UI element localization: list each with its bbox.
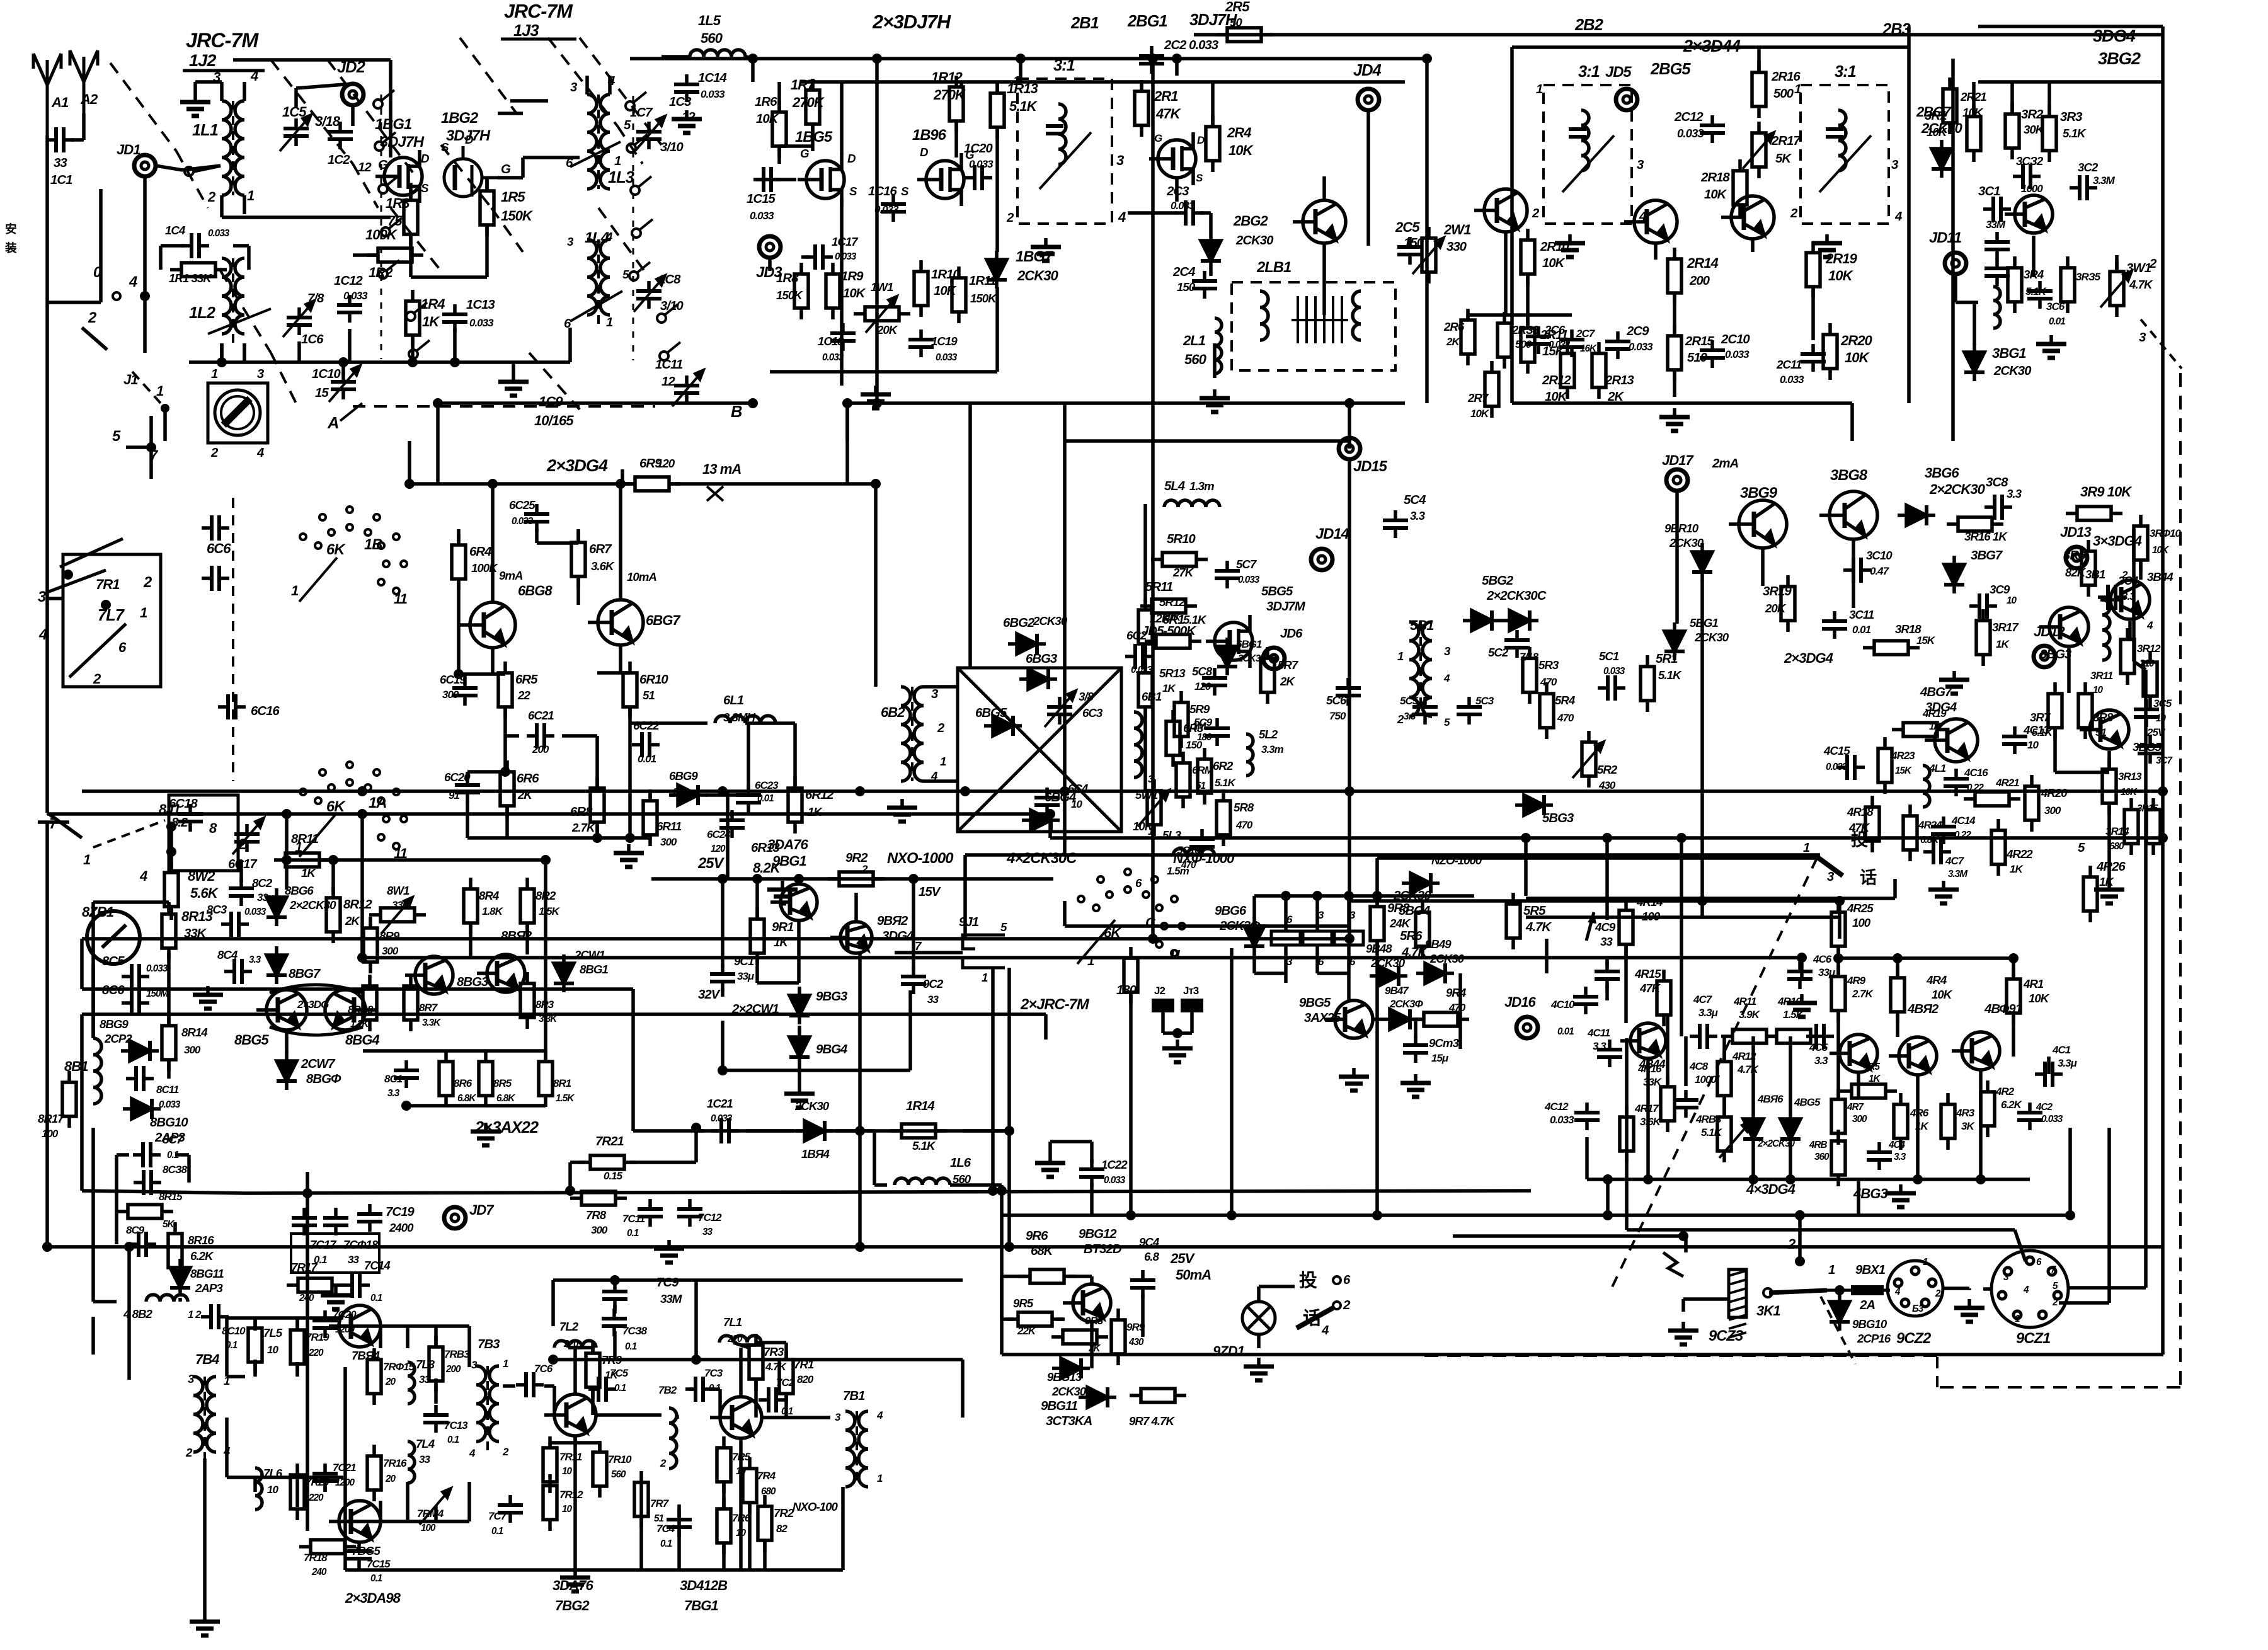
diode 9BG6 [1244, 917, 1264, 955]
svg-text:330: 330 [1446, 240, 1467, 254]
wire [756, 1341, 786, 1344]
svg-text:8BG3: 8BG3 [457, 975, 489, 989]
svg-text:1R14: 1R14 [906, 1099, 934, 1113]
wire [1151, 504, 1155, 939]
svg-text:3BG8: 3BG8 [1830, 467, 1868, 484]
switch contact [185, 167, 193, 176]
svg-text:10K: 10K [2029, 992, 2050, 1005]
svg-text:A: A [327, 415, 338, 432]
wire [739, 1438, 743, 1570]
svg-text:9R5: 9R5 [1013, 1297, 1034, 1310]
wire [521, 158, 525, 178]
svg-text:2×3DA98: 2×3DA98 [345, 1590, 401, 1606]
svg-text:2CP16: 2CP16 [1857, 1332, 1891, 1345]
capacitor 7C4 0.1 [667, 1510, 692, 1537]
svg-text:7L4: 7L4 [416, 1437, 435, 1450]
resistor 5R8 470 [1217, 789, 1230, 846]
svg-text:300: 300 [591, 1224, 608, 1236]
svg-text:8W2: 8W2 [188, 868, 215, 884]
dashed boundary 1J3 [617, 126, 643, 164]
wire [161, 244, 184, 248]
wire [466, 772, 469, 776]
wire [91, 902, 95, 1038]
svg-text:6L1: 6L1 [723, 694, 744, 708]
svg-text:G: G [378, 158, 388, 172]
svg-text:3D412B: 3D412B [680, 1578, 728, 1593]
transformer 6B2 primary [901, 687, 910, 781]
resistor 8R6 6.8K [439, 1050, 453, 1107]
transistor 9BG12 BT32D [1063, 1284, 1111, 1322]
wire [1161, 1012, 1165, 1033]
svg-text:1.3m: 1.3m [1189, 479, 1214, 493]
wire [550, 1441, 600, 1445]
svg-text:0.01: 0.01 [1557, 1026, 1574, 1037]
trimmer 6C17 [232, 818, 264, 854]
wire [845, 403, 849, 441]
svg-text:6R5: 6R5 [515, 673, 538, 687]
dashed switch shaft [232, 498, 234, 781]
svg-text:9BX1: 9BX1 [1855, 1263, 1886, 1277]
svg-text:5C8: 5C8 [1192, 665, 1213, 678]
svg-text:2.7K: 2.7K [571, 821, 596, 834]
resistor 7R18 240 [299, 1540, 356, 1554]
resistor 5R1 5.1K [1641, 655, 1654, 712]
svg-text:5: 5 [1000, 920, 1007, 934]
transformer 7B3 core [486, 1366, 489, 1454]
junction [488, 479, 498, 489]
svg-text:3BG9: 3BG9 [1740, 484, 1778, 501]
transistor 6BG7 [588, 600, 643, 645]
ground 9C3 [1400, 1074, 1431, 1097]
transformer 1L3 core [597, 95, 600, 189]
wire [1850, 403, 1854, 441]
wire bus 1456 [1526, 915, 1838, 919]
wire [353, 253, 378, 257]
resistor 4R6 1K [1894, 1093, 1908, 1150]
dashed border bottom [1417, 1355, 1937, 1357]
ground J2 J3 [1162, 1040, 1193, 1062]
junction [1344, 398, 1354, 408]
capacitor 2C4 150 [1192, 271, 1217, 299]
wire [1896, 958, 1899, 977]
transformer 6B2 core [911, 687, 913, 781]
svg-text:S: S [849, 185, 857, 198]
transformer 7B4 secondary [207, 1377, 216, 1452]
svg-text:3: 3 [1116, 152, 1125, 168]
svg-text:360: 360 [1814, 1152, 1830, 1162]
wire top bus [630, 57, 1427, 60]
resistor 3R2 30K [2005, 103, 2019, 159]
svg-text:2A: 2A [1859, 1298, 1875, 1312]
svg-text:8R4: 8R4 [479, 889, 500, 902]
resistor 8R9 300 [364, 917, 377, 973]
junction [1603, 1210, 1613, 1220]
wire bus bottom [1512, 401, 1852, 405]
wire [175, 1153, 189, 1157]
svg-text:1: 1 [1828, 1263, 1835, 1277]
wire [551, 1280, 555, 1326]
svg-text:4R18: 4R18 [1847, 805, 1874, 818]
resistor 2R7 10K [1485, 361, 1499, 418]
wire [721, 988, 724, 997]
svg-text:1: 1 [503, 1358, 508, 1370]
transformer 1L2 core [232, 258, 234, 347]
pot 1W1 [866, 296, 897, 333]
svg-text:4C7: 4C7 [1693, 994, 1713, 1005]
svg-text:1J3: 1J3 [513, 22, 539, 40]
pot 3W1 4.7K [2110, 260, 2124, 317]
transformer 7B3 primary [476, 1366, 486, 1441]
svg-text:3: 3 [1827, 870, 1835, 884]
pot 2W1 330 [1422, 227, 1436, 284]
capacitor 9C2 33 [901, 966, 926, 994]
svg-text:NXO-1000: NXO-1000 [887, 850, 953, 867]
wire [159, 246, 163, 270]
svg-text:4: 4 [876, 1409, 883, 1421]
wire long bus 4 [82, 1012, 1046, 1016]
wire [1585, 1137, 1589, 1179]
wire [1048, 814, 1052, 838]
junction [1835, 896, 1845, 906]
6C18 box [169, 795, 238, 871]
wire [1857, 1179, 1860, 1215]
resistor 2R15 510 [1668, 324, 1681, 381]
svg-text:1W1: 1W1 [871, 280, 893, 294]
junction [63, 570, 73, 580]
svg-text:4: 4 [256, 446, 264, 460]
svg-text:A2: A2 [80, 91, 98, 107]
wire [38, 820, 69, 824]
capacitor 1C14 0.033 [674, 74, 699, 102]
wire [2012, 1014, 2015, 1057]
svg-text:Jт3: Jт3 [1183, 985, 1199, 997]
diode 2BG2 2CK30 [1201, 232, 1221, 270]
capacitor 2C2 0.033 [1139, 46, 1164, 74]
capacitor 8C7 0.1 [133, 1142, 161, 1167]
svg-text:4R21: 4R21 [1995, 777, 2019, 789]
FET 1BG5 [798, 153, 844, 206]
svg-text:6: 6 [1135, 876, 1142, 890]
svg-text:6R7: 6R7 [589, 542, 612, 556]
svg-text:2BG1: 2BG1 [1127, 13, 1167, 30]
svg-text:3DG4: 3DG4 [2093, 26, 2136, 45]
resistor 5R7 2K [1261, 647, 1274, 704]
wire [1000, 1185, 1004, 1215]
wire bus 1962 [1453, 1234, 1686, 1238]
svg-text:5R4: 5R4 [1555, 694, 1576, 707]
svg-text:9CZ3: 9CZ3 [1709, 1327, 1743, 1344]
resistor 8R5 6.8K [479, 1050, 493, 1107]
svg-text:7CФ18: 7CФ18 [343, 1238, 379, 1251]
wire [755, 954, 759, 983]
connector JD5 [1616, 89, 1637, 110]
svg-text:0.033: 0.033 [512, 516, 534, 527]
wire [127, 1247, 131, 1380]
svg-text:话: 话 [1860, 868, 1877, 887]
svg-text:7R3: 7R3 [764, 1345, 784, 1358]
wire [1545, 939, 1549, 973]
svg-text:8C7: 8C7 [163, 1133, 184, 1146]
resistor 7R3 4.7K [749, 1334, 763, 1390]
wire [959, 82, 963, 87]
svg-text:2R17: 2R17 [1771, 134, 1801, 148]
resistor 3R1 10K [1967, 105, 1981, 162]
svg-text:1L1: 1L1 [192, 122, 218, 139]
capacitor 5C7 0.033 [1215, 561, 1240, 588]
resistor 4R12 4.7K [1717, 1050, 1731, 1107]
ground 1C14 [672, 110, 702, 133]
capacitor 3C9 10 [1969, 593, 1997, 619]
resistor 4R9 2.7K [1831, 965, 1845, 1022]
svg-text:4BG5: 4BG5 [1794, 1096, 1821, 1108]
svg-text:5R9: 5R9 [1189, 702, 1210, 716]
ground amp [861, 386, 891, 408]
svg-text:220: 220 [308, 1348, 324, 1358]
wire [253, 1360, 257, 1377]
wire [1347, 973, 1351, 1000]
svg-text:3R1: 3R1 [1925, 109, 1947, 123]
wire vertical 1540 [968, 403, 972, 668]
svg-text:1 2: 1 2 [188, 1309, 202, 1321]
svg-text:8C11: 8C11 [156, 1084, 179, 1096]
svg-text:10K: 10K [1162, 611, 1182, 623]
diode 4BG6 [1743, 1110, 1763, 1148]
plug J2 [1152, 999, 1174, 1012]
wire [797, 879, 801, 884]
svg-text:1B96: 1B96 [912, 127, 947, 144]
svg-text:8C2: 8C2 [252, 876, 273, 890]
wire [669, 793, 679, 797]
capacitor 3C10 0.47 [1843, 558, 1871, 583]
svg-text:1K: 1K [301, 866, 316, 879]
ground 4BG3 [1886, 1184, 1916, 1207]
wire long bus 1292 [47, 812, 1050, 816]
wire pin1 [243, 195, 246, 214]
svg-text:7C7: 7C7 [488, 1510, 508, 1522]
capacitor 6C6b [202, 566, 229, 591]
svg-text:1: 1 [2015, 1314, 2020, 1324]
wire 6BG8 emitter [491, 648, 495, 674]
transistor 3BG9 [1729, 500, 1787, 548]
svg-text:2B2: 2B2 [1574, 16, 1603, 34]
wire [553, 1386, 556, 1415]
wire [630, 721, 668, 725]
resistor 7R2 82 [758, 1495, 772, 1552]
svg-text:15: 15 [315, 386, 329, 400]
wire [1347, 896, 1351, 931]
junction [842, 398, 852, 408]
capacitor 3C7 0.1 [2138, 736, 2163, 764]
diode 9BG11 [1079, 1387, 1116, 1407]
svg-text:2.7K: 2.7K [1852, 988, 1874, 1000]
capacitor 1C18 0.033 [830, 323, 856, 351]
resistor 9R1 1K [750, 908, 764, 965]
wire [1956, 301, 1978, 304]
resistor 3R16 1K [1947, 517, 2003, 531]
wire bus2 [800, 80, 1405, 84]
svg-text:33μ: 33μ [1818, 966, 1836, 978]
antenna A2 [70, 50, 98, 132]
wire [47, 597, 63, 600]
wire [745, 57, 756, 59]
svg-text:2R20: 2R20 [1840, 333, 1873, 348]
capacitor 8C5 0.033 [122, 964, 149, 989]
transformer 1L4 secondary [600, 239, 610, 315]
svg-text:2CK30: 2CK30 [1235, 234, 1274, 248]
svg-text:20: 20 [385, 1474, 396, 1484]
svg-text:8R1: 8R1 [553, 1077, 571, 1089]
dashed boundary 1J2 [328, 60, 416, 176]
wire [187, 1155, 191, 1183]
capacitor 3C3b [1984, 258, 2010, 286]
svg-text:300: 300 [1852, 1114, 1867, 1125]
resistor 1R13 5.1K [990, 82, 1004, 139]
svg-text:180: 180 [1197, 732, 1212, 743]
svg-text:5R7: 5R7 [1278, 658, 1299, 672]
transformer 1L1 core [232, 101, 234, 195]
diode 6BG9 [669, 785, 707, 805]
wire long bus 1256 [82, 789, 2163, 793]
wire 8 bottom [406, 1104, 546, 1108]
inductor 1L6 560 [895, 1178, 950, 1185]
wire [379, 1501, 382, 1521]
svg-text:1C16: 1C16 [868, 185, 897, 198]
resistor 1R12 270K [949, 76, 963, 132]
inductor 7L2 220 [554, 1341, 596, 1348]
wire pin2 out [2059, 1301, 2109, 1305]
svg-text:10: 10 [267, 1484, 278, 1496]
trimmer 1C5 arrow [280, 115, 311, 151]
svg-text:6C16: 6C16 [251, 704, 280, 718]
svg-text:2CK30: 2CK30 [1669, 536, 1704, 549]
capacitor 1C10 15 [331, 372, 356, 399]
resistor 7R7 51 [634, 1471, 648, 1528]
junction [855, 786, 865, 796]
svg-text:3C2: 3C2 [2078, 161, 2099, 174]
transformer 1L2 secondary [235, 258, 244, 334]
svg-text:1K: 1K [422, 314, 440, 329]
resistor 9R2 2 [828, 872, 885, 886]
svg-text:100: 100 [1852, 916, 1871, 929]
svg-text:1B: 1B [364, 536, 382, 553]
svg-text:3: 3 [188, 1372, 195, 1385]
svg-text:120: 120 [656, 457, 675, 470]
svg-text:1K: 1K [1162, 682, 1176, 694]
capacitor 7C3 0.1 [685, 1377, 713, 1402]
dashed boundary 1J2 [176, 151, 208, 208]
svg-text:7C13: 7C13 [444, 1419, 468, 1431]
wire [575, 1346, 593, 1349]
wire [1284, 945, 1288, 973]
svg-text:1: 1 [291, 583, 299, 599]
wire [798, 988, 801, 994]
ground 2L1 [1200, 389, 1230, 412]
svg-text:2R14: 2R14 [1687, 255, 1719, 271]
wire [436, 1520, 469, 1523]
svg-text:3.3μ: 3.3μ [2058, 1057, 2078, 1069]
wire pin5 out [2068, 1286, 2146, 1290]
capacitor 1C19 0.033 [908, 329, 934, 357]
trimmer 1L2 arrow [208, 309, 271, 334]
wire [1624, 958, 1628, 1023]
diode 8BG10 2AP3 [123, 1099, 161, 1119]
ground IF2 [1555, 234, 1585, 257]
diode 5BG4 2CK30 [1402, 873, 1440, 893]
wire [1838, 901, 1841, 939]
resistor 3R7 5.1K [2048, 682, 2062, 739]
svg-text:1C4: 1C4 [165, 224, 186, 237]
resistor 5R5 4.7K [1506, 893, 1520, 949]
IF transformer 3:1 (3) cap [1826, 129, 1843, 137]
svg-text:5L4: 5L4 [1164, 479, 1185, 493]
pot 5R2 430 wiper [1572, 742, 1604, 778]
svg-text:5C9: 5C9 [1194, 716, 1213, 728]
svg-text:2: 2 [1532, 207, 1540, 221]
svg-text:4 8B2: 4 8B2 [123, 1307, 152, 1321]
svg-text:8R7: 8R7 [419, 1002, 438, 1014]
wire [1254, 971, 1286, 975]
svg-text:7R21: 7R21 [595, 1135, 624, 1149]
wire [639, 1482, 643, 1570]
wire [1605, 985, 1609, 1000]
wire [562, 734, 597, 738]
svg-text:8C9: 8C9 [126, 1224, 145, 1236]
wire [438, 401, 753, 405]
wire [1751, 1148, 1755, 1179]
svg-text:0.033: 0.033 [1677, 127, 1704, 140]
wire JD16 down [1625, 1038, 1629, 1230]
svg-text:6C4: 6C4 [1068, 782, 1089, 795]
capacitor 5C10 470 [1189, 829, 1215, 857]
wire bus 1521 [1838, 956, 2013, 960]
diode 5BG2b [1501, 610, 1538, 631]
junction [1148, 54, 1158, 64]
svg-text:6R8: 6R8 [570, 805, 593, 819]
capacitor 4C2 0.033 [2017, 1103, 2042, 1130]
junction [625, 833, 635, 843]
junction [454, 669, 464, 679]
wire [91, 1317, 95, 1355]
svg-text:10K: 10K [1542, 256, 1566, 270]
svg-text:JD14: JD14 [1315, 525, 1349, 542]
FET 1BG6 [917, 153, 964, 206]
svg-text:JD15: JD15 [1353, 458, 1388, 475]
capacitor 5C5 3.3 [1412, 697, 1438, 725]
junction [1835, 1285, 1845, 1295]
resistor 3R14 680 [2124, 798, 2138, 855]
junction [1148, 934, 1158, 944]
wire [613, 1331, 617, 1360]
svg-text:2: 2 [2052, 1297, 2058, 1308]
winding 8B2 [146, 1295, 188, 1302]
svg-text:5.1K: 5.1K [2063, 127, 2087, 140]
wire [798, 1026, 801, 1033]
svg-text:8BG1: 8BG1 [580, 963, 608, 976]
wire [1504, 232, 1508, 315]
resistor 2R14 200 [1668, 248, 1681, 304]
junction [1678, 1231, 1688, 1241]
resistor 5R11 12K [1140, 599, 1197, 613]
junction [1976, 1174, 1986, 1184]
wire [167, 953, 171, 1026]
svg-text:3.3K: 3.3K [539, 1014, 558, 1024]
ground 3BG5 [2094, 881, 2124, 903]
transistor 2BG4c [1474, 189, 1527, 232]
inductor 5L2 3.3m [1246, 734, 1253, 776]
svg-text:9BR10: 9BR10 [1664, 522, 1699, 535]
svg-text:3C11: 3C11 [1849, 608, 1874, 621]
wire [195, 80, 222, 84]
